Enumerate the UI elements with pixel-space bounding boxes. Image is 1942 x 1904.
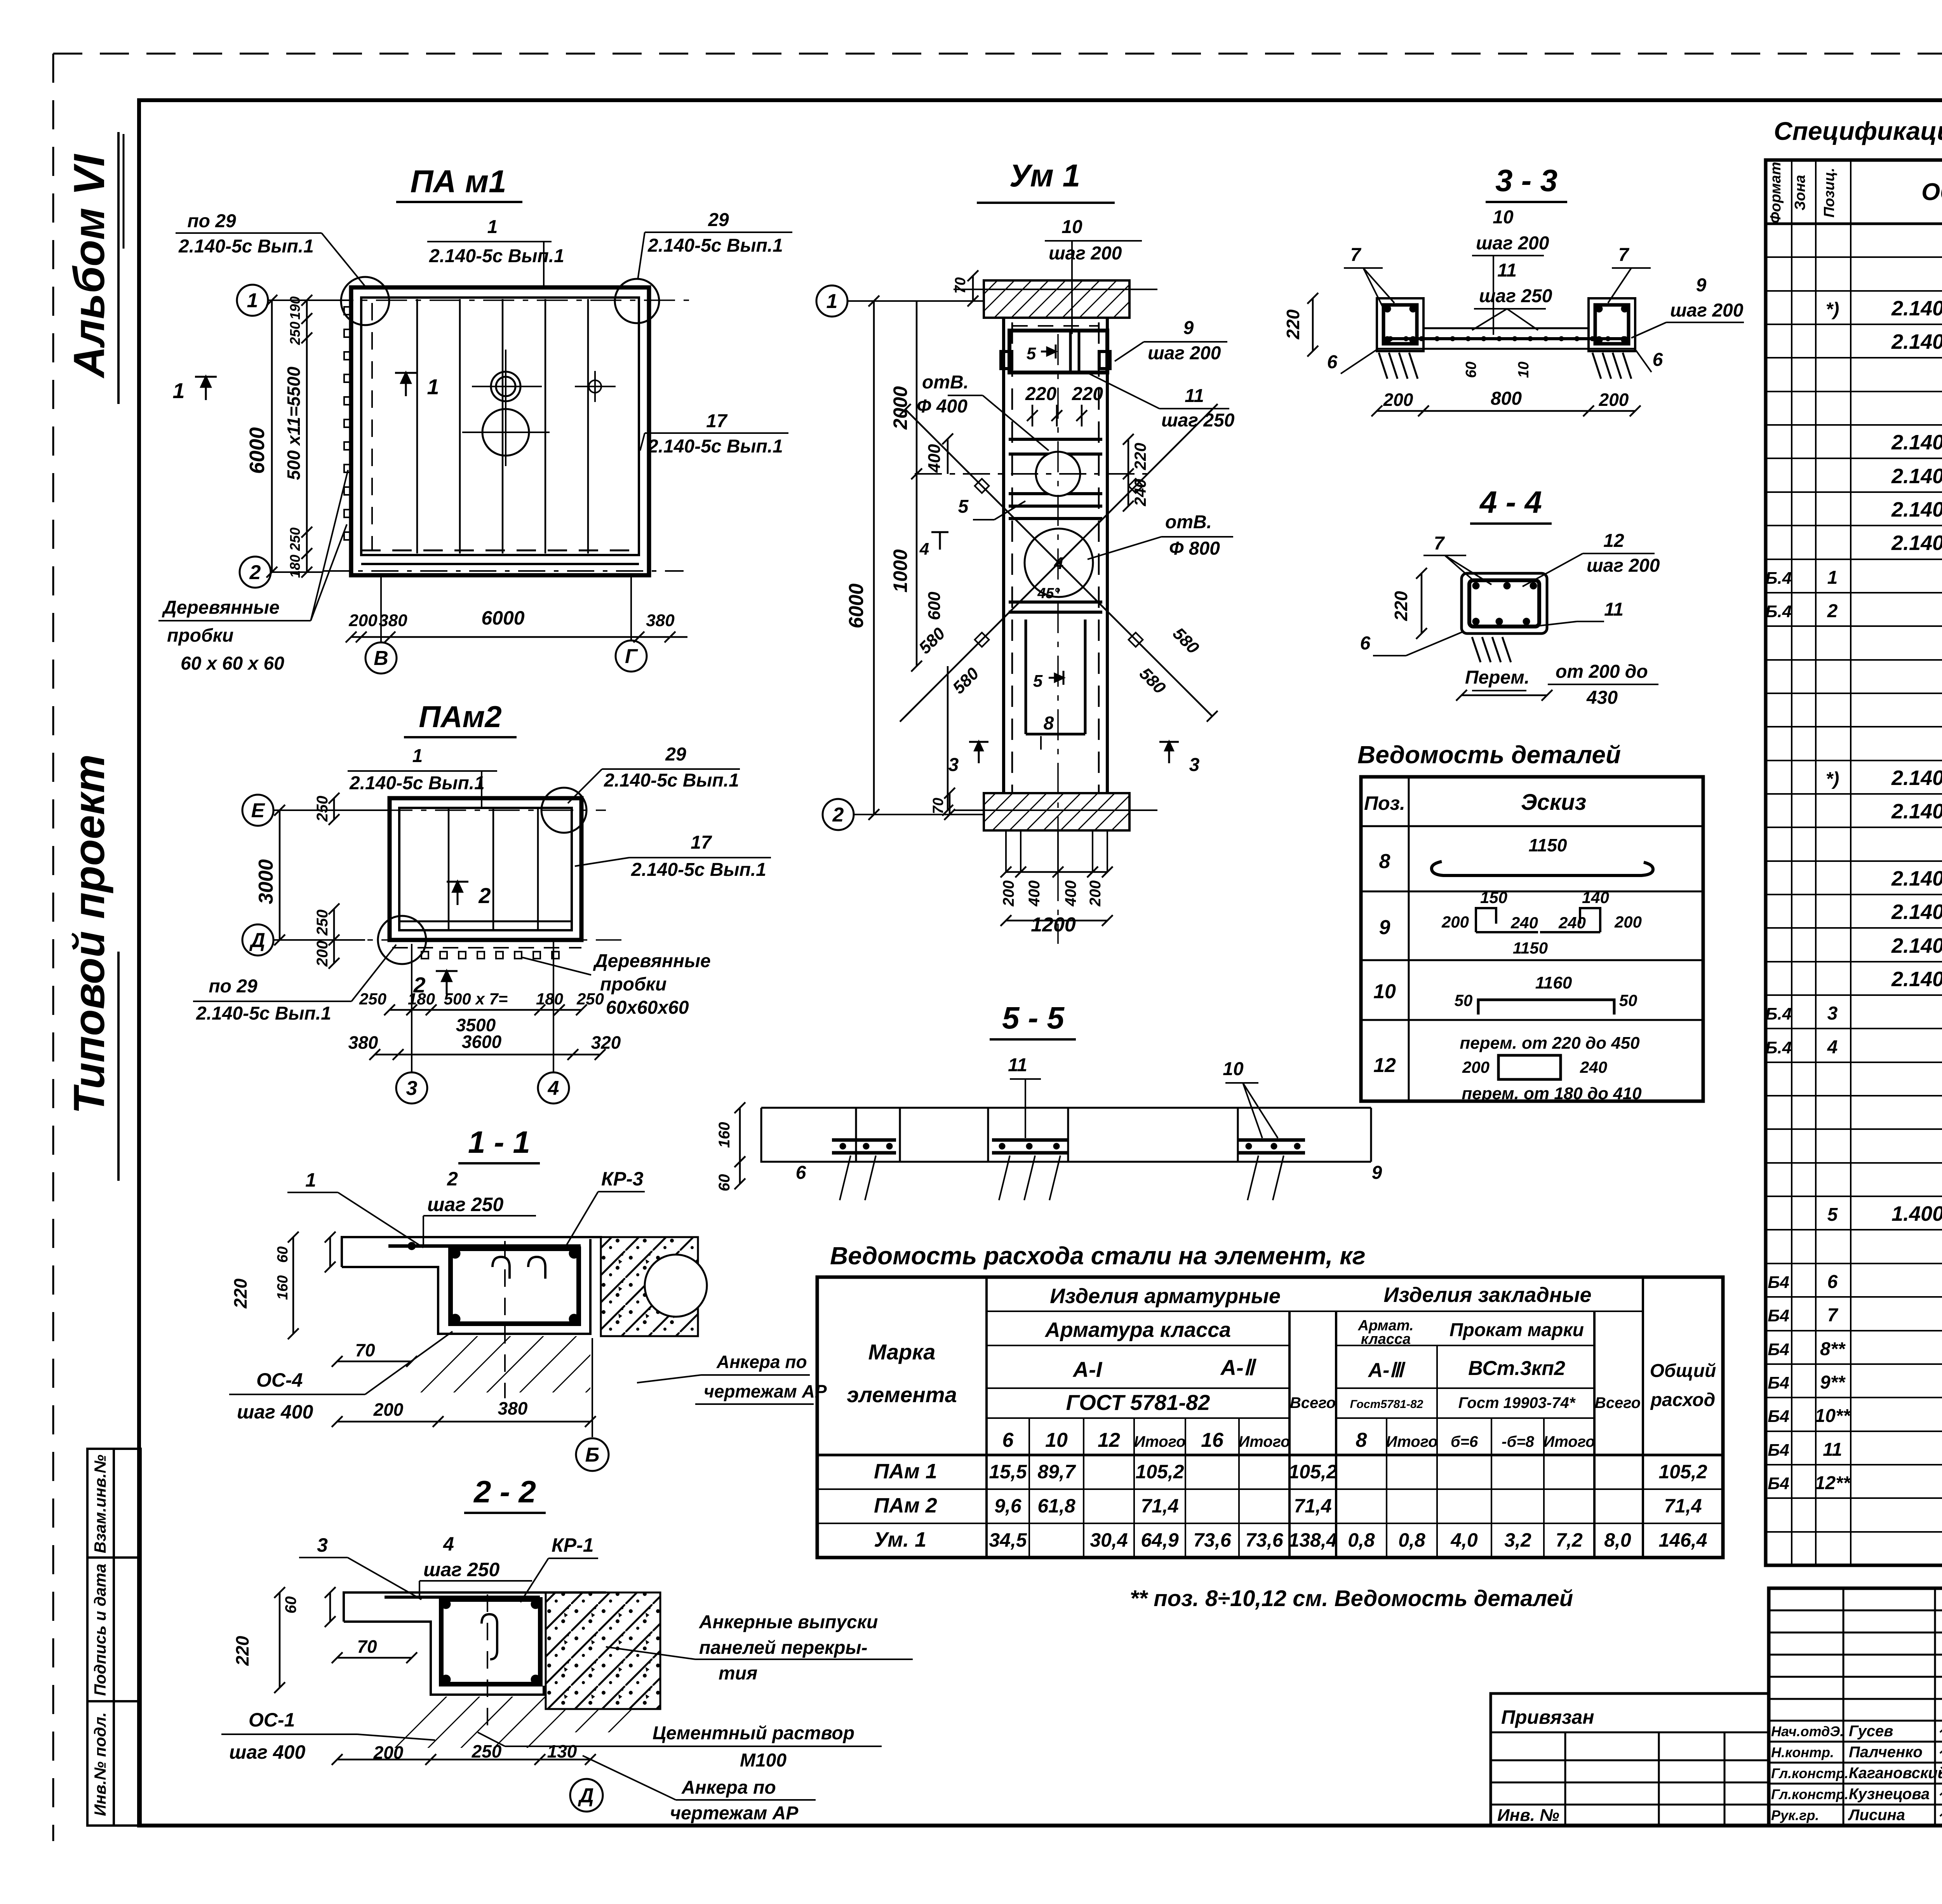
svg-text:Б4: Б4 [1768, 1441, 1789, 1460]
svg-text:перем. от 180 до 410: перем. от 180 до 410 [1462, 1084, 1642, 1103]
svg-text:10: 10 [1223, 1059, 1244, 1079]
Um1 bottom hatched band [984, 793, 1129, 830]
svg-text:6000: 6000 [845, 583, 868, 628]
specification table grid [1766, 160, 1942, 1565]
svg-text:шаг 200: шаг 200 [1049, 243, 1122, 264]
svg-text:шаг 200: шаг 200 [1587, 555, 1660, 576]
svg-text:3600: 3600 [462, 1032, 502, 1052]
svg-text:2: 2 [478, 883, 491, 908]
Um1 diagonal ties [905, 409, 1212, 716]
svg-text:11: 11 [1185, 386, 1204, 406]
svg-text:2000: 2000 [889, 386, 911, 430]
svg-text:500 х 7=: 500 х 7= [444, 990, 508, 1008]
svg-text:4: 4 [1827, 1037, 1838, 1058]
svg-text:105,2: 105,2 [1288, 1461, 1337, 1483]
section 2-2 lower hatch [375, 1697, 546, 1748]
svg-text:Итого: Итого [1238, 1433, 1290, 1450]
svg-text:10: 10 [1516, 362, 1532, 378]
svg-text:Итого: Итого [1386, 1433, 1437, 1450]
svg-text:71,4: 71,4 [1664, 1495, 1702, 1517]
svg-text:Б: Б [585, 1444, 600, 1466]
svg-text:430: 430 [1586, 687, 1618, 708]
svg-text:Палченко: Палченко [1849, 1744, 1923, 1761]
Um1 below band verticals [1006, 830, 1107, 872]
PAm2 grid bubbles [242, 795, 273, 826]
svg-text:класса: класса [1361, 1331, 1411, 1347]
svg-text:9: 9 [1372, 1163, 1382, 1183]
specification rows text [1765, 228, 1942, 1561]
section 2-2 stirrup cage [441, 1599, 540, 1684]
svg-text:250: 250 [287, 322, 303, 345]
svg-text:10**: 10** [1815, 1406, 1851, 1426]
svg-text:200: 200 [1383, 390, 1413, 410]
section 2-2 concrete outline [344, 1592, 606, 1695]
svg-text:А-I: А-I [1072, 1357, 1103, 1382]
svg-text:61,8: 61,8 [1037, 1495, 1075, 1517]
svg-text:Ум 1: Ум 1 [1009, 158, 1081, 193]
svg-text:8,0: 8,0 [1604, 1529, 1631, 1551]
svg-text:5: 5 [1027, 344, 1036, 363]
svg-text:ПАм 1: ПАм 1 [874, 1460, 937, 1483]
svg-text:Спецификация к ПАм1, ПАм2: Спецификация к ПАм1, ПАм2 и Ум1 [1774, 117, 1942, 145]
svg-text:64,9: 64,9 [1141, 1529, 1179, 1551]
svg-text:2.140-5с Вып.1: 2.140-5с Вып.1 [1891, 330, 1942, 353]
svg-text:45°: 45° [1037, 585, 1060, 602]
svg-text:пробки: пробки [600, 974, 666, 995]
svg-text:КР-3: КР-3 [601, 1168, 644, 1190]
svg-text:70: 70 [952, 277, 969, 294]
svg-text:2.140-5с Вып. 1: 2.140-5с Вып. 1 [1891, 867, 1942, 890]
svg-text:Инв.№ подл.: Инв.№ подл. [91, 1712, 109, 1816]
svg-text:4,0: 4,0 [1450, 1529, 1478, 1551]
svg-text:400: 400 [925, 444, 944, 473]
svg-text:перем. от 220 до 450: перем. от 220 до 450 [1460, 1034, 1640, 1053]
svg-text:Взам.инв.№: Взам.инв.№ [91, 1455, 109, 1553]
svg-text:380: 380 [379, 611, 407, 630]
Um1 wall strip [1004, 318, 1107, 793]
svg-text:89,7: 89,7 [1037, 1461, 1076, 1483]
svg-text:150: 150 [1480, 888, 1507, 907]
svg-text:1: 1 [305, 1169, 316, 1191]
section 1-1 labels [237, 1168, 827, 1423]
PAm1 left wall dashed joint line [371, 303, 373, 550]
svg-text:Ведомость деталей: Ведомость деталей [1357, 741, 1621, 769]
svg-text:Анкера по: Анкера по [716, 1352, 807, 1372]
steel table grid [817, 1277, 1723, 1558]
Um1 leader texts [917, 217, 1235, 431]
svg-text:200: 200 [1599, 390, 1629, 410]
svg-text:6: 6 [1002, 1429, 1014, 1451]
svg-text:ПА м1: ПА м1 [410, 164, 506, 199]
svg-text:9: 9 [1183, 318, 1194, 338]
Um1 vertical bars pos.8 [1026, 620, 1085, 734]
svg-text:4: 4 [919, 540, 929, 559]
svg-text:7: 7 [1827, 1305, 1839, 1326]
svg-text:6000: 6000 [245, 427, 269, 474]
svg-text:130: 130 [547, 1741, 577, 1761]
svg-text:190: 190 [287, 296, 303, 320]
svg-text:2.140-5с Вып.1: 2.140-5с Вып.1 [631, 860, 766, 880]
svg-text:220: 220 [230, 1278, 251, 1309]
svg-text:2.140-5с Вып.1: 2.140-5с Вып.1 [349, 773, 485, 794]
svg-text:240: 240 [1131, 479, 1149, 506]
svg-text:60: 60 [1463, 362, 1479, 378]
svg-text:Деревянные: Деревянные [593, 951, 711, 971]
svg-text:4: 4 [548, 1077, 559, 1100]
svg-text:Б4: Б4 [1768, 1273, 1789, 1292]
PAm2 bottom wall inner line [399, 921, 572, 922]
svg-text:М100: М100 [740, 1750, 787, 1771]
svg-text:Гусев: Гусев [1849, 1723, 1893, 1740]
svg-text:2.140-5с Вып.1: 2.140-5с Вып.1 [1891, 498, 1942, 521]
svg-text:Типовой проект: Типовой проект [65, 754, 113, 1114]
svg-text:Прокат марки: Прокат марки [1450, 1320, 1584, 1340]
svg-text:шаг 400: шаг 400 [237, 1401, 313, 1423]
svg-text:9: 9 [1379, 916, 1390, 939]
PAm2 leader texts [196, 744, 766, 1024]
svg-text:12: 12 [1098, 1429, 1120, 1451]
svg-text:шаг 400: шаг 400 [229, 1741, 305, 1763]
svg-text:Б4: Б4 [1768, 1373, 1789, 1392]
svg-text:5: 5 [1033, 672, 1043, 691]
svg-text:73,6: 73,6 [1193, 1529, 1232, 1551]
svg-text:1150: 1150 [1513, 939, 1548, 957]
svg-text:Итого: Итого [1543, 1433, 1595, 1450]
Um1 embed plates pos.9 [1001, 352, 1110, 369]
svg-text:Эскиз: Эскиз [1521, 790, 1586, 815]
PAm2 plan walls [390, 798, 581, 940]
svg-text:8: 8 [1379, 850, 1390, 873]
svg-text:элемента: элемента [847, 1382, 957, 1407]
svg-text:240: 240 [1510, 914, 1538, 932]
svg-text:Рук.гр.: Рук.гр. [1771, 1807, 1819, 1823]
svg-text:7,2: 7,2 [1556, 1529, 1583, 1551]
PAm1 axis leader lines [269, 300, 631, 642]
svg-text:240: 240 [1558, 914, 1586, 932]
svg-text:2: 2 [249, 561, 261, 584]
svg-text:400: 400 [1026, 881, 1043, 907]
svg-text:Б4: Б4 [1768, 1306, 1789, 1325]
PAm2 corner detail circles [378, 788, 586, 964]
svg-text:Ф 800: Ф 800 [1169, 538, 1220, 559]
svg-text:Д: Д [249, 929, 265, 952]
svg-text:71,4: 71,4 [1141, 1495, 1178, 1517]
svg-text:200: 200 [348, 611, 378, 630]
svg-text:ОС-1: ОС-1 [249, 1709, 295, 1731]
svg-text:3 - 3: 3 - 3 [1495, 163, 1557, 198]
svg-text:70: 70 [355, 1340, 375, 1360]
PAm1 plan walls [351, 287, 649, 575]
svg-text:2 - 2: 2 - 2 [473, 1474, 536, 1509]
svg-text:панелей перекры-: панелей перекры- [699, 1638, 868, 1658]
svg-text:9**: 9** [1820, 1372, 1846, 1393]
svg-text:1150: 1150 [1529, 835, 1567, 855]
svg-text:Анкера по: Анкера по [681, 1777, 776, 1798]
svg-text:3: 3 [317, 1534, 328, 1556]
PAm1 corner detail circles [341, 277, 659, 325]
svg-text:146,4: 146,4 [1658, 1529, 1707, 1551]
svg-text:2.140-5с Вып.1: 2.140-5с Вып.1 [196, 1003, 331, 1024]
svg-text:10: 10 [1373, 980, 1396, 1003]
svg-text:2.140-5с Вып.1: 2.140-5с Вып.1 [647, 436, 783, 457]
PAm2 section marks 2 [447, 882, 468, 905]
svg-text:шаг 200: шаг 200 [1148, 343, 1221, 364]
section 4-4 labels [1360, 531, 1660, 708]
svg-text:Б.4: Б.4 [1765, 1038, 1792, 1057]
svg-text:по 29: по 29 [209, 976, 258, 997]
svg-text:2.140-5с Вып.1: 2.140-5с Вып.1 [1891, 297, 1942, 320]
svg-text:5: 5 [958, 496, 969, 517]
svg-text:ГОСТ 5781-82: ГОСТ 5781-82 [1066, 1390, 1210, 1415]
svg-text:29: 29 [665, 744, 686, 765]
svg-text:Б4: Б4 [1768, 1340, 1789, 1359]
svg-text:220: 220 [232, 1636, 252, 1666]
svg-text:Д: Д [578, 1784, 594, 1807]
svg-text:Б4: Б4 [1768, 1407, 1789, 1426]
svg-text:7: 7 [1618, 245, 1630, 265]
svg-text:Арматура класса: Арматура класса [1044, 1318, 1231, 1342]
section 4-4 beam [1462, 573, 1547, 634]
svg-text:71,4: 71,4 [1294, 1495, 1331, 1517]
svg-text:105,2: 105,2 [1658, 1461, 1707, 1483]
Um1 vertical dim chains [868, 296, 879, 820]
PAm1 inner dashed line [361, 550, 639, 552]
svg-text:Инв. №: Инв. № [1497, 1806, 1559, 1825]
PAm1 openings: small+large circles [482, 372, 529, 456]
svg-text:шаг 250: шаг 250 [427, 1194, 503, 1215]
svg-text:ВСт.3кп2: ВСт.3кп2 [1468, 1357, 1565, 1380]
svg-text:160: 160 [275, 1275, 291, 1300]
svg-text:220: 220 [1072, 384, 1103, 404]
svg-text:60 х 60 х 60: 60 х 60 х 60 [181, 653, 284, 674]
svg-text:2.140-5с Вып.1: 2.140-5с Вып.1 [1891, 431, 1942, 454]
svg-text:1160: 1160 [1535, 973, 1572, 992]
PAm1 bottom dimension chain [346, 632, 687, 642]
svg-text:105,2: 105,2 [1135, 1461, 1184, 1483]
svg-text:200: 200 [373, 1742, 404, 1763]
section 3-3 right rib [1589, 298, 1635, 351]
svg-text:1: 1 [1827, 567, 1838, 588]
svg-text:73,6: 73,6 [1245, 1529, 1284, 1551]
section 1-1 top rebar [388, 1244, 581, 1248]
detail pos.9 sketch [1476, 908, 1600, 932]
svg-text:2.140-5с Вып.1: 2.140-5с Вып.1 [178, 236, 314, 257]
svg-text:220: 220 [1283, 309, 1303, 339]
svg-text:17: 17 [691, 832, 712, 853]
svg-text:220: 220 [1391, 591, 1411, 621]
svg-text:А-Ⅲ: А-Ⅲ [1368, 1359, 1406, 1382]
svg-text:1: 1 [487, 217, 498, 237]
svg-text:9: 9 [1696, 275, 1707, 296]
Um1 top stirrup box [1009, 331, 1107, 372]
svg-text:*): *) [1826, 299, 1839, 320]
section 2-2 top rebar [385, 1596, 540, 1599]
svg-text:Изделия арматурные: Изделия арматурные [1050, 1284, 1281, 1308]
section 5-5 anchor legs [840, 1156, 1284, 1200]
svg-text:2.140-5с Вып.1: 2.140-5с Вып.1 [604, 770, 739, 791]
svg-text:12: 12 [1603, 531, 1624, 551]
svg-text:Всего: Всего [1595, 1394, 1641, 1411]
svg-text:1000: 1000 [889, 549, 911, 592]
svg-text:380: 380 [498, 1398, 528, 1418]
section 1-1 lower hatch [392, 1336, 590, 1392]
privyazan block [1491, 1693, 1769, 1826]
svg-text:3: 3 [948, 755, 959, 775]
svg-text:Формат: Формат [1768, 162, 1784, 224]
svg-text:Г: Г [625, 645, 638, 668]
svg-text:Анкерные выпуски: Анкерные выпуски [699, 1612, 878, 1632]
PAm2 axis dash-dot lines [274, 810, 621, 940]
svg-text:Кагановский: Кагановский [1849, 1765, 1942, 1782]
Um1 wall centerline [1057, 334, 1059, 944]
svg-text:380: 380 [646, 611, 675, 630]
svg-text:Подпись и дата: Подпись и дата [91, 1564, 109, 1696]
svg-text:200: 200 [373, 1399, 404, 1420]
section 5-5 embedded plates [832, 1140, 1305, 1153]
svg-text:220: 220 [1131, 443, 1149, 470]
section 3-3 left rib [1377, 298, 1423, 351]
svg-text:4 - 4: 4 - 4 [1479, 485, 1542, 519]
svg-text:Н.контр.: Н.контр. [1771, 1744, 1834, 1760]
svg-text:Нач.отдЭ.: Нач.отдЭ. [1771, 1723, 1844, 1739]
svg-text:2: 2 [1827, 601, 1838, 621]
svg-text:Поз.: Поз. [1364, 792, 1405, 814]
signatures [1940, 1726, 1942, 1820]
detail pos.10 sketch [1478, 1000, 1614, 1015]
Um1 dashed line below top band [1012, 325, 1099, 327]
PAm1 section marks 1-1 [195, 377, 217, 400]
svg-text:10: 10 [1493, 207, 1514, 228]
svg-text:11: 11 [1604, 599, 1624, 620]
svg-text:6: 6 [1327, 352, 1338, 372]
svg-text:180: 180 [536, 990, 563, 1008]
Um1 right small dims [1123, 434, 1134, 479]
svg-text:800: 800 [1491, 388, 1522, 409]
svg-text:6: 6 [796, 1163, 806, 1183]
svg-text:Деревянные: Деревянные [162, 597, 280, 618]
svg-text:240: 240 [1580, 1058, 1607, 1076]
svg-text:2.140-5с Вып. 1: 2.140-5с Вып. 1 [1891, 934, 1942, 957]
svg-text:60: 60 [275, 1246, 291, 1263]
PAm1 left dimension chains [266, 295, 277, 578]
svg-text:380: 380 [348, 1032, 378, 1053]
Um1 top slab hatched band [984, 280, 1129, 318]
svg-text:Цементный раствор: Цементный раствор [653, 1723, 854, 1744]
svg-text:-б=8: -б=8 [1502, 1433, 1534, 1450]
svg-text:140: 140 [1582, 888, 1609, 907]
svg-text:Б.4: Б.4 [1765, 569, 1792, 588]
section 2-2 wall hatched block [546, 1592, 660, 1709]
svg-text:3,2: 3,2 [1504, 1529, 1531, 1551]
svg-text:А-Ⅱ: А-Ⅱ [1220, 1355, 1257, 1380]
svg-text:250: 250 [472, 1741, 502, 1761]
svg-text:Обозначение: Обозначение [1921, 179, 1942, 205]
Um1 X small squares [975, 479, 1143, 647]
svg-text:*): *) [1826, 769, 1839, 789]
svg-text:500 х11=5500: 500 х11=5500 [284, 367, 304, 480]
svg-text:КР-1: КР-1 [552, 1534, 594, 1556]
svg-text:Б.4: Б.4 [1765, 1004, 1792, 1023]
svg-text:чертежам АР: чертежам АР [670, 1803, 799, 1824]
svg-text:1: 1 [412, 746, 423, 766]
svg-text:В: В [374, 647, 388, 670]
svg-text:600: 600 [925, 592, 944, 620]
section 5-5 labels [796, 1055, 1382, 1183]
svg-text:60х60х60: 60х60х60 [606, 997, 689, 1018]
svg-text:200: 200 [1441, 913, 1469, 931]
svg-text:Б.4: Б.4 [1765, 602, 1792, 621]
svg-text:180: 180 [287, 555, 303, 578]
PAm1 panel joint lines [417, 299, 588, 553]
svg-text:Итого: Итого [1134, 1433, 1185, 1450]
svg-text:тия: тия [719, 1663, 757, 1684]
section 3-3 slab [1377, 328, 1635, 349]
PAm2 panel joint lines [449, 809, 538, 929]
left margin bottom strip (Взам.инв / Подпись и дата / Инв.№ подл.) [87, 1449, 141, 1826]
Um1 axis bubbles [816, 285, 847, 317]
svg-text:10: 10 [1045, 1429, 1068, 1451]
PAm1 axis dash-dot lines [269, 299, 695, 301]
svg-text:2.140-5с Вып. 1: 2.140-5с Вып. 1 [1891, 900, 1942, 924]
Um1 small section markers [919, 344, 1179, 763]
svg-text:2: 2 [413, 973, 425, 997]
svg-text:от 200 до: от 200 до [1556, 661, 1648, 682]
svg-text:3: 3 [1827, 1003, 1838, 1024]
svg-text:200: 200 [1462, 1058, 1490, 1076]
svg-text:17: 17 [706, 411, 728, 432]
PAm1 wooden plug squares [344, 307, 352, 540]
svg-text:50: 50 [1619, 991, 1637, 1009]
svg-text:отВ.: отВ. [922, 372, 969, 393]
svg-text:1200: 1200 [1031, 914, 1076, 936]
svg-text:Перем.: Перем. [1465, 667, 1530, 688]
svg-text:200: 200 [1614, 913, 1642, 931]
svg-text:1: 1 [427, 374, 439, 399]
svg-text:10: 10 [1061, 217, 1082, 237]
svg-text:шаг 200: шаг 200 [1670, 300, 1744, 321]
PAm1 leader texts [162, 210, 783, 674]
svg-text:чертежам АР: чертежам АР [704, 1381, 827, 1401]
section 1-1 wall hatched block [601, 1237, 698, 1336]
svg-text:2.140-5с Вып.1: 2.140-5с Вып.1 [647, 235, 783, 256]
svg-text:2.140-5с Вып.1: 2.140-5с Вып.1 [1891, 465, 1942, 488]
svg-text:5: 5 [1827, 1204, 1838, 1225]
PAm2 bottom dims [384, 1004, 587, 1015]
svg-text:Е: Е [251, 799, 265, 822]
svg-text:250: 250 [287, 527, 303, 551]
section 1-1 concrete outline [342, 1237, 602, 1334]
svg-text:29: 29 [708, 210, 729, 230]
svg-text:12: 12 [1373, 1054, 1396, 1077]
svg-text:0,8: 0,8 [1348, 1529, 1375, 1551]
svg-text:11: 11 [1823, 1439, 1842, 1460]
svg-text:4: 4 [443, 1533, 454, 1555]
title block texts [1771, 1723, 1942, 1824]
svg-text:2.140-5с Вып. 1: 2.140-5с Вып. 1 [1891, 800, 1942, 823]
svg-text:1 - 1: 1 - 1 [468, 1125, 530, 1159]
section 3-3 dims [1307, 293, 1318, 357]
svg-text:Зона: Зона [1792, 175, 1808, 211]
svg-text:250: 250 [359, 990, 386, 1008]
svg-text:220: 220 [1025, 384, 1056, 404]
svg-text:Гост5781-82: Гост5781-82 [1350, 1398, 1423, 1411]
svg-text:160: 160 [716, 1122, 733, 1148]
svg-text:250: 250 [314, 796, 331, 822]
section 2-2 labels [229, 1533, 594, 1763]
svg-text:Марка: Марка [868, 1340, 936, 1364]
svg-text:70: 70 [930, 798, 947, 814]
svg-text:2: 2 [832, 804, 844, 826]
